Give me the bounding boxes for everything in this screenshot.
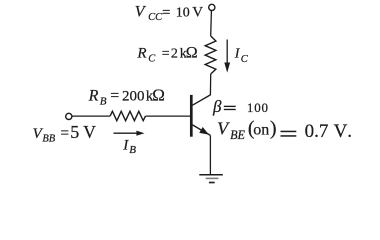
svg-text:C: C	[241, 54, 249, 65]
emitter slant	[193, 125, 211, 135]
current arrow IB	[114, 131, 145, 136]
svg-text:10: 10	[176, 5, 190, 20]
svg-text:CC: CC	[148, 12, 163, 23]
svg-text:I: I	[122, 138, 129, 154]
svg-text:R: R	[136, 46, 146, 62]
svg-text:β: β	[212, 97, 222, 116]
svg-text:200: 200	[122, 89, 145, 105]
svg-text:C: C	[148, 54, 156, 65]
collector slant	[193, 95, 211, 105]
label IC	[234, 46, 249, 65]
svg-text:100: 100	[247, 100, 269, 115]
svg-text:5: 5	[70, 122, 79, 142]
wire RB to base	[146, 115, 191, 117]
wire RC to collector	[209, 74, 211, 95]
label beta = 100	[212, 97, 269, 116]
svg-text:BB: BB	[42, 134, 55, 145]
svg-text:=: =	[162, 47, 170, 62]
svg-text:V: V	[334, 121, 348, 142]
label VBB = 5 V	[33, 122, 97, 145]
svg-text:BE: BE	[230, 128, 245, 142]
svg-text:on: on	[253, 121, 269, 138]
label IB	[122, 138, 136, 156]
svg-text:=: =	[110, 88, 119, 105]
svg-text:Ω: Ω	[152, 86, 165, 105]
resistor RC	[205, 36, 216, 74]
svg-text:2: 2	[171, 47, 178, 62]
resistor RB	[110, 111, 145, 120]
node VCC terminal	[209, 4, 215, 10]
label RB = 200 kOhm	[88, 86, 165, 108]
transistor Q1	[191, 95, 210, 137]
svg-text:0.7: 0.7	[305, 121, 329, 142]
svg-text:B: B	[129, 144, 136, 156]
svg-text:R: R	[88, 88, 99, 105]
svg-text:): )	[270, 118, 277, 140]
svg-text:Ω: Ω	[186, 45, 198, 62]
wire VBB to RB	[72, 115, 110, 117]
svg-text:.: .	[347, 121, 352, 142]
wire emitter to ground	[209, 135, 211, 174]
base bar	[190, 95, 193, 137]
svg-text:B: B	[100, 95, 107, 107]
ground	[199, 175, 223, 183]
label VCC = 10 V	[135, 3, 204, 23]
current arrow IC	[224, 40, 230, 73]
label VBE(on) = 0.7 V	[217, 118, 352, 143]
svg-text:V: V	[83, 122, 96, 142]
label RC = 2 kOhm	[136, 45, 197, 65]
svg-text:=: =	[162, 5, 170, 21]
node VBB terminal	[66, 113, 72, 119]
svg-text:V: V	[192, 4, 203, 20]
svg-text:=: =	[60, 125, 69, 142]
wire VCC to RC	[210, 11, 213, 36]
emitter arrowhead	[199, 127, 209, 135]
